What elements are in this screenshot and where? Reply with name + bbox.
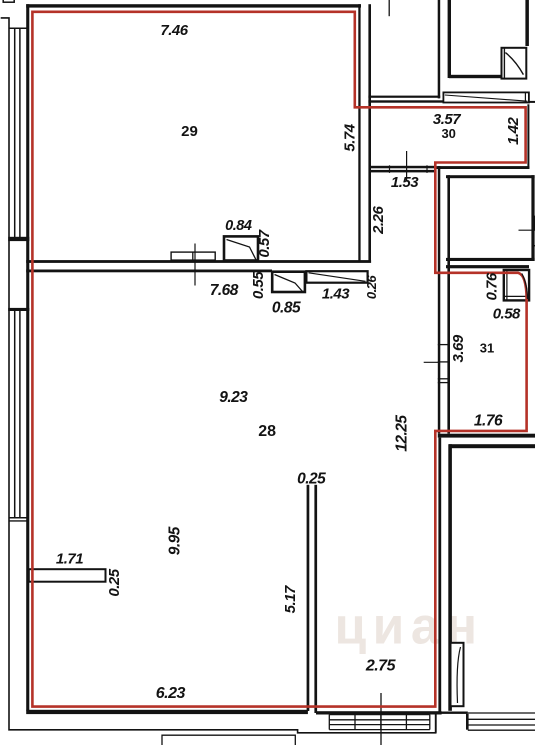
dimension tick 1.53 (406, 151, 408, 181)
stair band diagonal (445, 95, 528, 101)
stair band (443, 92, 529, 102)
dimension tick 2.75 (380, 693, 382, 745)
top-right room door leaf (505, 53, 523, 75)
corridor opening tick 1 (389, 165, 391, 173)
loggia glazing bottom cap (9, 517, 29, 519)
middle-right room edge tick (533, 216, 535, 231)
lower-right room left wall (448, 444, 452, 711)
middle-right room bottom wall (446, 258, 535, 261)
top-right room door inner jamb (503, 48, 505, 79)
wall between rooms 29 and 28: lower line (26, 270, 272, 273)
glazing line A lower loggia (14, 309, 16, 518)
svg-text:1.43: 1.43 (322, 286, 350, 303)
door 0.85 leaf (275, 275, 303, 292)
pillar bottom cap (8, 308, 29, 311)
dimension tick 7.68 (194, 244, 196, 286)
svg-text:1.71: 1.71 (56, 551, 83, 568)
middle-right room tick (519, 229, 535, 231)
glazing line A upper loggia (14, 28, 16, 238)
wall rung 1 (438, 344, 450, 346)
top-right room door box (502, 48, 527, 79)
svg-text:29: 29 (181, 123, 198, 140)
svg-text:28: 28 (258, 423, 276, 440)
lower-right room bottom wall (442, 712, 468, 714)
interior partition wall right line (314, 485, 317, 713)
middle-right room top wall (446, 175, 535, 178)
entry door inner horizontal (504, 295, 529, 297)
wall rung 3 (438, 378, 450, 380)
svg-text:0.26: 0.26 (364, 275, 379, 300)
interior wall stub 1.71 (29, 569, 106, 582)
lower-right door leaf (457, 647, 460, 703)
svg-text:2.75: 2.75 (365, 658, 397, 675)
svg-text:0.25: 0.25 (106, 568, 123, 596)
top outer wall (26, 4, 361, 7)
svg-text:2.26: 2.26 (370, 206, 387, 235)
bottom middle table (329, 715, 430, 730)
svg-text:0.55: 0.55 (250, 271, 267, 299)
svg-text:0.58: 0.58 (493, 306, 521, 323)
top-right room right wall (525, 0, 529, 46)
corner box top-left (3, 0, 14, 2)
top-middle room tick (388, 0, 390, 16)
svg-text:7.46: 7.46 (160, 22, 188, 39)
bottom-left balcony rect (162, 735, 295, 745)
corridor opening tick 2 (426, 165, 428, 173)
middle-right room right wall (531, 175, 534, 261)
glazing line B upper loggia (19, 28, 21, 238)
room 31 top wall (446, 265, 529, 268)
loggia glazing bottom cap 2 (9, 520, 29, 522)
sill boxes on wall (171, 252, 215, 260)
entry door 0.76 box (504, 270, 529, 300)
svg-text:9.23: 9.23 (219, 389, 248, 406)
svg-text:0.25: 0.25 (297, 471, 326, 488)
svg-text:0.85: 0.85 (272, 300, 301, 317)
wall L1 middle segment (438, 166, 441, 434)
corridor 30 bottom wall lower line (369, 170, 437, 173)
bottom outer wall right part (316, 711, 442, 714)
svg-text:9.95: 9.95 (166, 526, 183, 555)
window 1.43 box (306, 271, 367, 283)
svg-text:3.69: 3.69 (450, 334, 467, 362)
svg-text:6.23: 6.23 (156, 685, 186, 702)
svg-text:12.25: 12.25 (394, 415, 411, 452)
svg-text:30: 30 (441, 126, 455, 141)
lower-right room top wall (449, 444, 535, 448)
stair band inner vertical (524, 92, 526, 102)
wall L1 bottom segment (438, 438, 441, 713)
wall between rooms 29 and 28: upper line (26, 260, 371, 263)
interior partition wall left line (307, 485, 310, 711)
svg-text:1.53: 1.53 (391, 174, 419, 191)
wall 29|30 right line (368, 4, 371, 260)
wall rung 2 (438, 361, 450, 363)
svg-text:0.76: 0.76 (483, 272, 500, 300)
bottom outer wall (26, 710, 308, 714)
svg-text:0.57: 0.57 (256, 229, 273, 257)
corridor 30 top wall lower line (368, 100, 444, 102)
window 0.84 leaf (227, 240, 257, 260)
svg-text:1.42: 1.42 (505, 117, 522, 145)
glazing line B lower loggia (19, 309, 21, 518)
window 0.84 box (224, 236, 258, 260)
wall L2 middle segment (447, 175, 450, 433)
outer contour line left (1, 18, 437, 733)
lower-right door box (451, 643, 464, 706)
bottom right table (468, 713, 535, 730)
svg-text:5.74: 5.74 (341, 123, 358, 151)
wall rung 4 (438, 382, 450, 384)
door 0.85 box (272, 272, 305, 292)
left outer wall (26, 4, 29, 710)
corridor bottom wall right extension (437, 166, 530, 169)
lower-right horizontal wall (438, 434, 535, 438)
window 1.43 diagonal (309, 273, 366, 282)
entry door leaf (522, 274, 528, 300)
wall 29|30 left line (358, 4, 360, 260)
middle-right room edge tick 2 (532, 245, 535, 247)
corridor right outer wall line (527, 104, 529, 168)
dimension tick 3.69 (424, 361, 440, 363)
wall L2 top segment (448, 0, 451, 78)
wall L1 top segment (438, 0, 441, 98)
svg-text:1.76: 1.76 (474, 413, 503, 430)
svg-text:7.68: 7.68 (210, 282, 239, 299)
entry door inner vertical (506, 270, 508, 300)
wall end cap to outer line (435, 715, 437, 733)
svg-text:0.84: 0.84 (225, 218, 252, 234)
pillar top cap (8, 237, 29, 241)
band bottom line right extension (529, 101, 535, 103)
svg-text:31: 31 (480, 341, 494, 356)
vertical connector bottom right (466, 714, 469, 730)
corridor 30 bottom wall upper line (369, 166, 437, 169)
svg-text:5.17: 5.17 (282, 585, 299, 613)
loggia glazing top cap (9, 27, 29, 29)
corridor 30 top wall upper line (368, 96, 440, 98)
top-right room bottom wall (449, 75, 502, 78)
